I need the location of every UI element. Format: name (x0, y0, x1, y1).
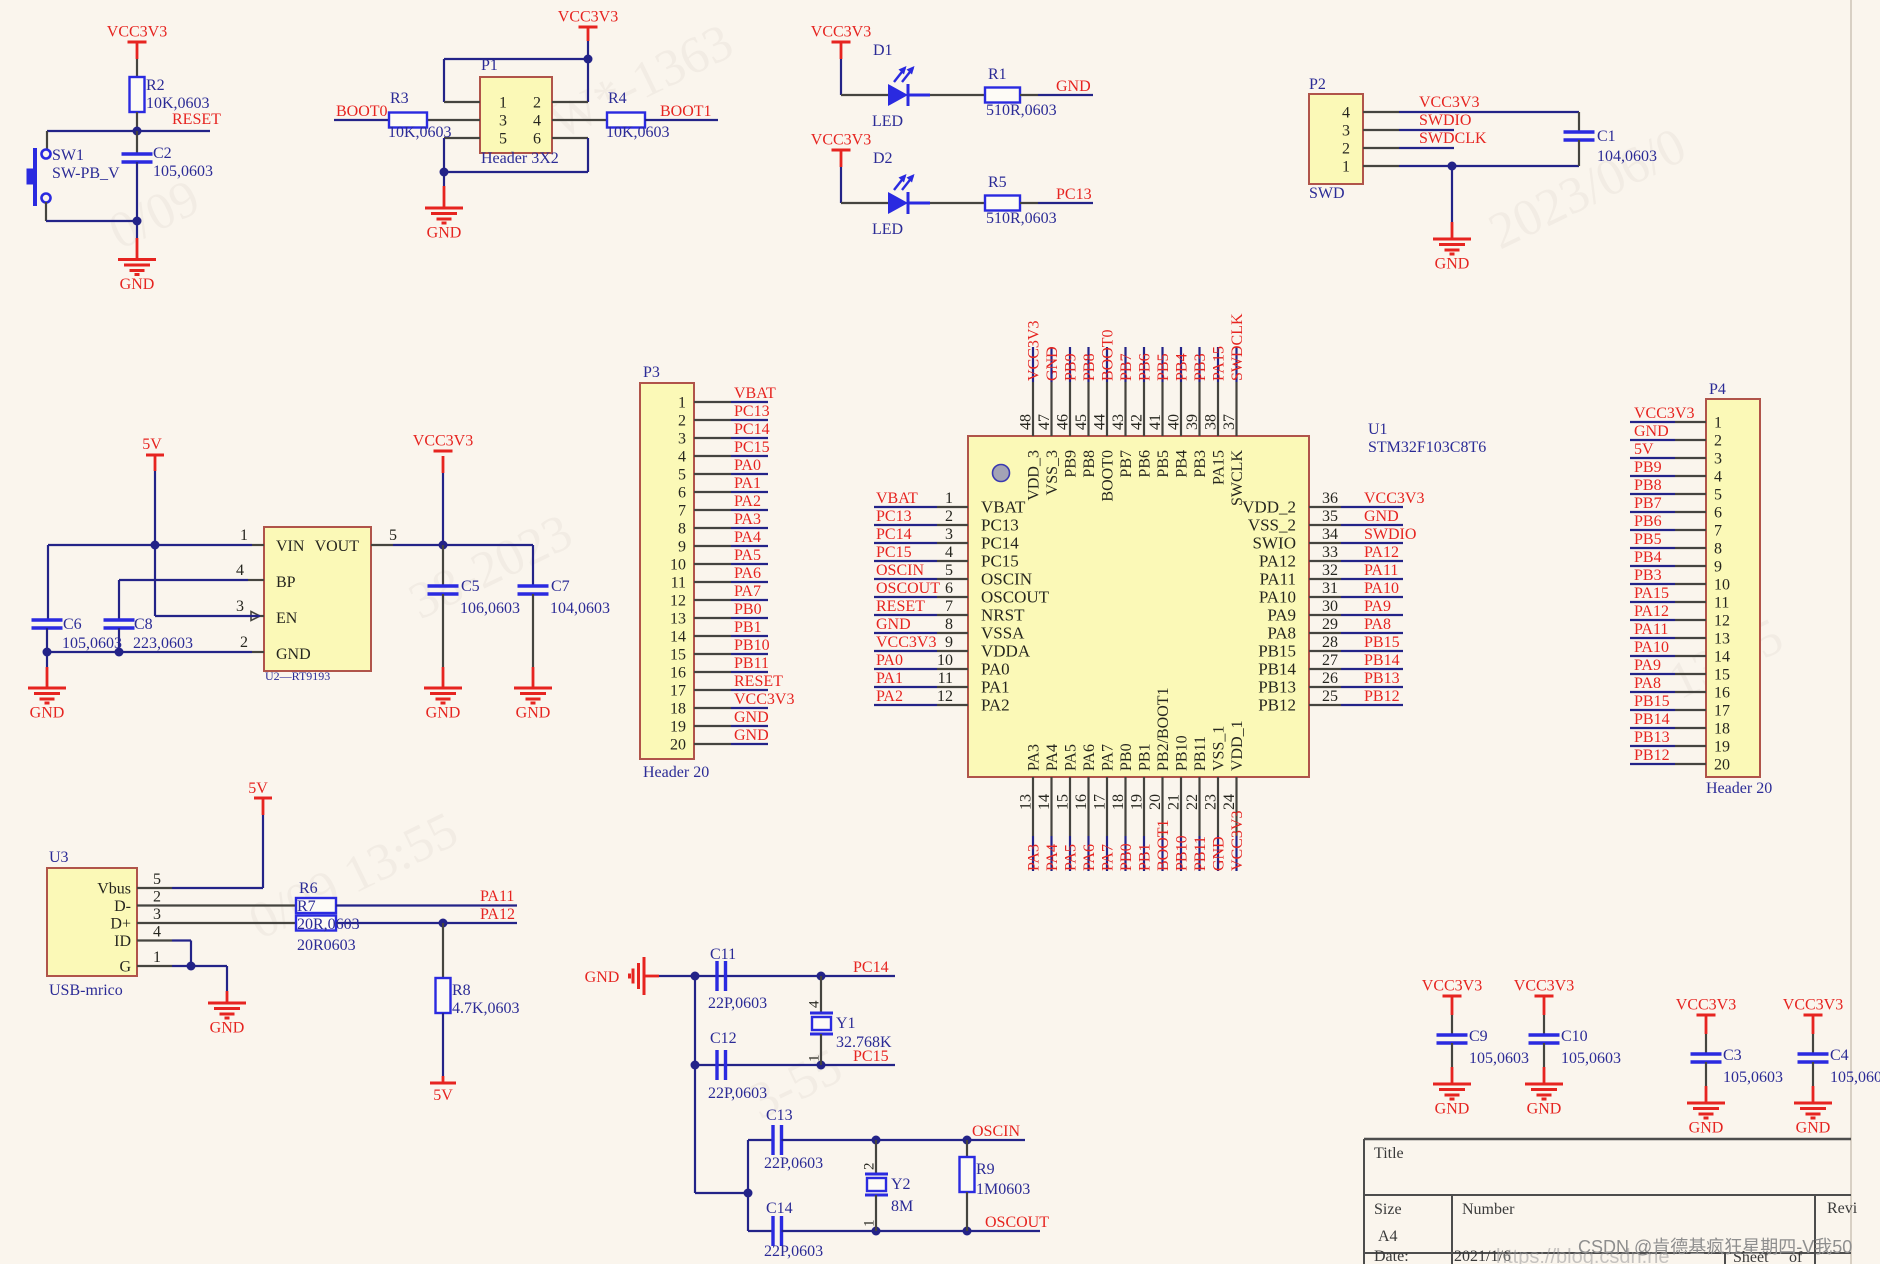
svg-text:PB8: PB8 (1081, 353, 1098, 381)
svg-text:24: 24 (1221, 794, 1238, 810)
svg-text:PC13: PC13 (876, 508, 912, 525)
svg-text:C7: C7 (551, 578, 570, 595)
svg-text:PA1: PA1 (876, 670, 903, 687)
svg-text:GND: GND (1435, 1101, 1470, 1118)
svg-text:OSCOUT: OSCOUT (876, 580, 940, 597)
svg-text:PB2/BOOT1: PB2/BOOT1 (1155, 687, 1172, 771)
svg-text:R9: R9 (976, 1161, 995, 1178)
svg-text:3: 3 (499, 113, 507, 130)
svg-text:10K,0603: 10K,0603 (606, 124, 670, 141)
svg-text:NRST: NRST (981, 606, 1025, 625)
svg-text:PB3: PB3 (1192, 353, 1209, 381)
svg-text:PB5: PB5 (1155, 450, 1172, 478)
svg-text:PA5: PA5 (1063, 744, 1080, 771)
svg-text:PB1: PB1 (734, 619, 762, 636)
svg-text:GND: GND (1527, 1101, 1562, 1118)
svg-text:PB10: PB10 (1174, 835, 1191, 871)
svg-text:1: 1 (678, 395, 686, 412)
svg-text:7: 7 (1714, 523, 1722, 540)
svg-text:C3: C3 (1723, 1047, 1742, 1064)
svg-text:PB4: PB4 (1634, 549, 1662, 566)
svg-text:VSS_1: VSS_1 (1211, 726, 1228, 771)
svg-text:4: 4 (1714, 469, 1722, 486)
svg-text:USB-mrico: USB-mrico (49, 982, 123, 999)
svg-text:SWD: SWD (1309, 185, 1345, 202)
svg-text:40: 40 (1166, 414, 1183, 430)
svg-text:PB9: PB9 (1063, 450, 1080, 478)
svg-text:PB10: PB10 (734, 637, 770, 654)
svg-text:GND: GND (120, 276, 155, 293)
svg-text:PA7: PA7 (734, 583, 761, 600)
svg-text:GND: GND (30, 705, 65, 722)
svg-text:PB5: PB5 (1155, 353, 1172, 381)
svg-text:PA0: PA0 (876, 652, 903, 669)
svg-text:106,0603: 106,0603 (460, 600, 520, 617)
svg-text:C14: C14 (766, 1200, 793, 1217)
svg-text:5V: 5V (142, 436, 162, 453)
svg-text:PA3: PA3 (734, 511, 761, 528)
svg-text:22P,0603: 22P,0603 (708, 1085, 767, 1102)
svg-text:PA9: PA9 (1634, 657, 1661, 674)
svg-text:7: 7 (678, 503, 686, 520)
svg-text:3: 3 (678, 431, 686, 448)
svg-text:VDD_3: VDD_3 (1026, 450, 1043, 501)
svg-text:16: 16 (1714, 685, 1730, 702)
svg-text:2: 2 (240, 634, 248, 651)
svg-text:PA0: PA0 (981, 660, 1010, 679)
svg-text:10: 10 (670, 557, 686, 574)
svg-text:VSSA: VSSA (981, 624, 1025, 643)
svg-text:VCC3V3: VCC3V3 (811, 132, 871, 149)
svg-text:11: 11 (938, 670, 953, 687)
svg-text:OSCIN: OSCIN (876, 562, 924, 579)
svg-text:VDD_1: VDD_1 (1229, 720, 1246, 771)
svg-text:PB6: PB6 (1137, 353, 1154, 381)
svg-text:41: 41 (1147, 414, 1164, 430)
svg-text:VCC3V3: VCC3V3 (1676, 997, 1736, 1014)
svg-text:PB4: PB4 (1174, 353, 1191, 381)
svg-text:VCC3V3: VCC3V3 (1419, 94, 1479, 111)
svg-text:44: 44 (1092, 414, 1109, 430)
svg-text:PB15: PB15 (1258, 642, 1296, 661)
svg-text:VCC3V3: VCC3V3 (1229, 811, 1246, 871)
svg-text:PB0: PB0 (1118, 843, 1135, 871)
svg-text:15: 15 (670, 647, 686, 664)
svg-text:105,0603: 105,0603 (1830, 1069, 1880, 1086)
svg-text:GND: GND (1364, 508, 1399, 525)
svg-text:PA10: PA10 (1634, 639, 1669, 656)
svg-text:17: 17 (1714, 703, 1730, 720)
svg-text:45: 45 (1073, 414, 1090, 430)
svg-text:2: 2 (1342, 141, 1350, 158)
svg-text:9: 9 (678, 539, 686, 556)
svg-text:6: 6 (945, 580, 953, 597)
svg-text:18: 18 (670, 701, 686, 718)
svg-text:PA11: PA11 (1259, 570, 1296, 589)
svg-text:10K,0603: 10K,0603 (388, 124, 452, 141)
svg-text:PB4: PB4 (1174, 450, 1191, 478)
svg-text:SW-PB_V: SW-PB_V (52, 165, 120, 182)
svg-text:PB1: PB1 (1137, 743, 1154, 771)
svg-text:OSCOUT: OSCOUT (985, 1214, 1049, 1231)
svg-text:VBAT: VBAT (734, 385, 776, 402)
svg-text:4: 4 (533, 113, 541, 130)
svg-text:C13: C13 (766, 1107, 793, 1124)
svg-text:42: 42 (1129, 414, 1146, 430)
svg-text:Date:: Date: (1374, 1248, 1409, 1264)
svg-text:25: 25 (1322, 688, 1338, 705)
svg-text:PA11: PA11 (1634, 621, 1668, 638)
svg-text:PB11: PB11 (734, 655, 769, 672)
svg-text:11: 11 (671, 575, 686, 592)
svg-text:PB15: PB15 (1634, 693, 1670, 710)
svg-text:PA12: PA12 (1259, 552, 1296, 571)
svg-text:5V: 5V (248, 780, 268, 797)
svg-text:PB11: PB11 (1192, 736, 1209, 771)
svg-text:GND: GND (1056, 78, 1091, 95)
svg-text:PB7: PB7 (1118, 450, 1135, 478)
svg-text:PA6: PA6 (734, 565, 761, 582)
svg-text:5: 5 (678, 467, 686, 484)
svg-text:PB8: PB8 (1081, 450, 1098, 478)
svg-text:PC14: PC14 (981, 534, 1019, 553)
svg-text:PA4: PA4 (1044, 744, 1061, 771)
svg-text:16: 16 (1073, 794, 1090, 810)
svg-text:9: 9 (945, 634, 953, 651)
svg-text:PB14: PB14 (1634, 711, 1670, 728)
svg-text:GND: GND (1435, 256, 1470, 273)
svg-text:P4: P4 (1709, 381, 1726, 398)
svg-text:SWDIO: SWDIO (1419, 112, 1471, 129)
svg-text:10: 10 (937, 652, 953, 669)
svg-text:PC14: PC14 (734, 421, 770, 438)
svg-text:19: 19 (1129, 794, 1146, 810)
svg-text:VOUT: VOUT (315, 538, 360, 555)
svg-text:39: 39 (1184, 414, 1201, 430)
svg-text:SWDCLK: SWDCLK (1419, 130, 1487, 147)
svg-text:PB6: PB6 (1137, 450, 1154, 478)
svg-text:PA2: PA2 (734, 493, 761, 510)
svg-text:R1: R1 (988, 66, 1007, 83)
svg-text:PA4: PA4 (1044, 844, 1061, 871)
svg-text:BOOT0: BOOT0 (1100, 450, 1117, 502)
svg-text:4: 4 (678, 449, 686, 466)
svg-text:18: 18 (1714, 721, 1730, 738)
svg-text:1: 1 (1342, 159, 1350, 176)
svg-text:104,0603: 104,0603 (1597, 148, 1657, 165)
svg-text:VDDA: VDDA (981, 642, 1031, 661)
svg-text:PB15: PB15 (1364, 634, 1400, 651)
svg-text:32: 32 (1322, 562, 1338, 579)
svg-text:105,0603: 105,0603 (1469, 1050, 1529, 1067)
svg-text:R5: R5 (988, 174, 1007, 191)
svg-text:17: 17 (1092, 794, 1109, 810)
svg-text:PB7: PB7 (1634, 495, 1662, 512)
svg-text:38: 38 (1203, 414, 1220, 430)
svg-text:PB13: PB13 (1364, 670, 1400, 687)
svg-text:C6: C6 (63, 616, 82, 633)
svg-text:GND: GND (1634, 423, 1669, 440)
svg-text:RESET: RESET (876, 598, 925, 615)
svg-text:BP: BP (276, 574, 296, 591)
svg-text:VCC3V3: VCC3V3 (558, 9, 618, 26)
svg-text:12: 12 (937, 688, 953, 705)
svg-text:PB12: PB12 (1364, 688, 1400, 705)
svg-text:14: 14 (670, 629, 686, 646)
svg-text:PA8: PA8 (1267, 624, 1296, 643)
svg-text:47: 47 (1036, 414, 1053, 430)
svg-text:PC15: PC15 (981, 552, 1019, 571)
svg-text:PB5: PB5 (1634, 531, 1662, 548)
svg-text:PA10: PA10 (1259, 588, 1296, 607)
svg-text:P2: P2 (1309, 76, 1326, 93)
svg-text:PC14: PC14 (876, 526, 912, 543)
svg-text:VCC3V3: VCC3V3 (1783, 997, 1843, 1014)
svg-text:105,0603: 105,0603 (1561, 1050, 1621, 1067)
svg-text:VCC3V3: VCC3V3 (107, 24, 167, 41)
svg-text:PA15: PA15 (1211, 346, 1228, 381)
svg-text:OSCIN: OSCIN (981, 570, 1032, 589)
svg-text:3: 3 (945, 526, 953, 543)
svg-text:VCC3V3: VCC3V3 (734, 691, 794, 708)
svg-text:6: 6 (678, 485, 686, 502)
svg-text:Revi: Revi (1827, 1200, 1858, 1217)
svg-text:8: 8 (1714, 541, 1722, 558)
svg-text:PB14: PB14 (1258, 660, 1296, 679)
svg-text:46: 46 (1055, 414, 1072, 430)
svg-text:PA11: PA11 (1364, 562, 1398, 579)
svg-text:VSS_2: VSS_2 (1248, 516, 1296, 535)
svg-text:16: 16 (670, 665, 686, 682)
svg-text:18: 18 (1110, 794, 1127, 810)
svg-text:Header 20: Header 20 (643, 764, 709, 781)
svg-text:11: 11 (1714, 595, 1729, 612)
svg-text:ID: ID (114, 933, 131, 950)
svg-text:2: 2 (678, 413, 686, 430)
svg-text:4: 4 (236, 562, 244, 579)
svg-text:37: 37 (1221, 414, 1238, 430)
svg-text:PB0: PB0 (734, 601, 762, 618)
svg-text:GND: GND (276, 646, 311, 663)
svg-text:SWIO: SWIO (1253, 534, 1296, 553)
svg-text:PC14: PC14 (853, 959, 889, 976)
svg-text:PA9: PA9 (1267, 606, 1296, 625)
svg-text:105,0603: 105,0603 (62, 635, 122, 652)
svg-text:R8: R8 (452, 982, 471, 999)
svg-text:Vbus: Vbus (97, 881, 131, 898)
svg-text:VBAT: VBAT (981, 498, 1026, 517)
svg-text:C4: C4 (1830, 1047, 1849, 1064)
svg-text:C5: C5 (461, 578, 480, 595)
svg-text:4.7K,0603: 4.7K,0603 (452, 1000, 520, 1017)
svg-text:5V: 5V (1634, 441, 1654, 458)
svg-text:30: 30 (1322, 598, 1338, 615)
svg-text:28: 28 (1322, 634, 1338, 651)
svg-text:6: 6 (533, 131, 541, 148)
svg-text:VSS_3: VSS_3 (1044, 450, 1061, 495)
svg-text:GND: GND (585, 969, 620, 986)
svg-text:C1: C1 (1597, 128, 1616, 145)
svg-text:PA5: PA5 (734, 547, 761, 564)
svg-text:PA2: PA2 (876, 688, 903, 705)
svg-text:R6: R6 (299, 880, 318, 897)
svg-text:PA12: PA12 (480, 906, 515, 923)
svg-text:GND: GND (1796, 1120, 1831, 1137)
svg-text:PB6: PB6 (1634, 513, 1662, 530)
svg-text:U2—RT9193: U2—RT9193 (265, 669, 330, 683)
svg-text:PA15: PA15 (1211, 450, 1228, 485)
svg-text:17: 17 (670, 683, 686, 700)
svg-text:1: 1 (1714, 415, 1722, 432)
svg-text:VCC3V3: VCC3V3 (1364, 490, 1424, 507)
svg-text:PA0: PA0 (734, 457, 761, 474)
svg-text:PC13: PC13 (1056, 186, 1092, 203)
svg-text:8M: 8M (891, 1198, 913, 1215)
svg-text:GND: GND (734, 727, 769, 744)
svg-text:GND: GND (516, 705, 551, 722)
svg-text:P3: P3 (643, 364, 660, 381)
svg-text:1: 1 (240, 527, 248, 544)
svg-text:20: 20 (1147, 794, 1164, 810)
svg-text:PB13: PB13 (1258, 678, 1296, 697)
svg-text:LED: LED (872, 113, 903, 130)
svg-text:U1: U1 (1368, 421, 1388, 438)
svg-text:1: 1 (945, 490, 953, 507)
svg-text:VCC3V3: VCC3V3 (1422, 978, 1482, 995)
svg-text:15: 15 (1714, 667, 1730, 684)
svg-text:PC15: PC15 (734, 439, 770, 456)
svg-text:PB9: PB9 (1063, 353, 1080, 381)
svg-text:D1: D1 (873, 42, 893, 59)
svg-text:10: 10 (1714, 577, 1730, 594)
svg-text:2: 2 (533, 95, 541, 112)
svg-text:OSCOUT: OSCOUT (981, 588, 1050, 607)
svg-text:PB13: PB13 (1634, 729, 1670, 746)
svg-text:GND: GND (210, 1020, 245, 1037)
svg-text:A4: A4 (1378, 1228, 1398, 1245)
svg-text:GND: GND (1689, 1120, 1724, 1137)
svg-text:VDD_2: VDD_2 (1242, 498, 1296, 517)
svg-text:VCC3V3: VCC3V3 (811, 24, 871, 41)
svg-text:3: 3 (153, 906, 161, 923)
svg-text:GND: GND (1211, 836, 1228, 871)
svg-text:Header 3X2: Header 3X2 (481, 150, 559, 167)
svg-text:31: 31 (1322, 580, 1338, 597)
svg-text:PB9: PB9 (1634, 459, 1662, 476)
svg-text:PA2: PA2 (981, 696, 1010, 715)
svg-text:Title: Title (1374, 1145, 1404, 1162)
svg-text:PA6: PA6 (1081, 744, 1098, 771)
svg-text:22P,0603: 22P,0603 (764, 1155, 823, 1172)
svg-text:4: 4 (807, 1000, 823, 1008)
svg-text:14: 14 (1036, 794, 1053, 810)
svg-text:43: 43 (1110, 414, 1127, 430)
svg-text:PA1: PA1 (981, 678, 1010, 697)
svg-text:20: 20 (670, 737, 686, 754)
svg-text:SW1: SW1 (52, 147, 84, 164)
svg-text:C11: C11 (710, 946, 736, 963)
svg-text:PA11: PA11 (480, 888, 514, 905)
svg-text:VCC3V3: VCC3V3 (1634, 405, 1694, 422)
svg-text:3: 3 (236, 598, 244, 615)
svg-text:PB3: PB3 (1192, 450, 1209, 478)
svg-text:PA7: PA7 (1100, 744, 1117, 771)
svg-text:R2: R2 (146, 77, 165, 94)
svg-text:22P,0603: 22P,0603 (708, 995, 767, 1012)
svg-text:19: 19 (1714, 739, 1730, 756)
svg-text:VIN: VIN (276, 538, 305, 555)
svg-text:4: 4 (153, 924, 161, 941)
svg-text:Number: Number (1462, 1201, 1515, 1218)
svg-text:223,0603: 223,0603 (133, 635, 193, 652)
svg-text:8: 8 (678, 521, 686, 538)
svg-text:PA9: PA9 (1364, 598, 1391, 615)
svg-text:P1: P1 (481, 57, 498, 74)
svg-text:OSCIN: OSCIN (972, 1123, 1020, 1140)
svg-text:2: 2 (1714, 433, 1722, 450)
svg-text:VCC3V3: VCC3V3 (413, 433, 473, 450)
svg-text:12: 12 (670, 593, 686, 610)
svg-text:D-: D- (114, 898, 131, 915)
svg-text:D2: D2 (873, 150, 893, 167)
svg-text:PB0: PB0 (1118, 743, 1135, 771)
svg-text:BOOT0: BOOT0 (336, 103, 388, 120)
svg-text:PA7: PA7 (1100, 844, 1117, 871)
svg-text:GND: GND (426, 705, 461, 722)
svg-text:PA15: PA15 (1634, 585, 1669, 602)
svg-text:8: 8 (945, 616, 953, 633)
svg-text:32.768K: 32.768K (836, 1034, 892, 1051)
svg-text:PA12: PA12 (1364, 544, 1399, 561)
svg-text:C2: C2 (153, 145, 172, 162)
svg-text:5: 5 (153, 871, 161, 888)
svg-text:5: 5 (389, 527, 397, 544)
svg-text:12: 12 (1714, 613, 1730, 630)
svg-text:20R,0603: 20R,0603 (297, 916, 360, 933)
svg-text:PB11: PB11 (1192, 836, 1209, 871)
svg-text:14: 14 (1714, 649, 1730, 666)
svg-text:10K,0603: 10K,0603 (146, 95, 210, 112)
svg-text:D+: D+ (110, 916, 131, 933)
svg-text:PA6: PA6 (1081, 844, 1098, 871)
svg-text:2: 2 (862, 1163, 878, 1171)
svg-text:PC15: PC15 (876, 544, 912, 561)
svg-text:19: 19 (670, 719, 686, 736)
svg-text:SWCLK: SWCLK (1229, 450, 1246, 506)
svg-text:27: 27 (1322, 652, 1338, 669)
svg-text:1: 1 (153, 949, 161, 966)
svg-text:VCC3V3: VCC3V3 (876, 634, 936, 651)
svg-text:13: 13 (1018, 794, 1035, 810)
svg-text:7: 7 (945, 598, 953, 615)
svg-text:G: G (119, 959, 131, 976)
svg-text:2: 2 (153, 889, 161, 906)
svg-text:35: 35 (1322, 508, 1338, 525)
svg-text:1: 1 (499, 95, 507, 112)
svg-text:20: 20 (1714, 757, 1730, 774)
svg-text:STM32F103C8T6: STM32F103C8T6 (1368, 439, 1486, 456)
svg-text:PC13: PC13 (734, 403, 770, 420)
svg-text:PB12: PB12 (1258, 696, 1296, 715)
svg-text:2: 2 (945, 508, 953, 525)
svg-text:21: 21 (1166, 794, 1183, 810)
svg-text:29: 29 (1322, 616, 1338, 633)
svg-text:Header 20: Header 20 (1706, 780, 1772, 797)
svg-text:26: 26 (1322, 670, 1338, 687)
svg-text:5: 5 (945, 562, 953, 579)
svg-text:PB12: PB12 (1634, 747, 1670, 764)
svg-text:PC13: PC13 (981, 516, 1019, 535)
